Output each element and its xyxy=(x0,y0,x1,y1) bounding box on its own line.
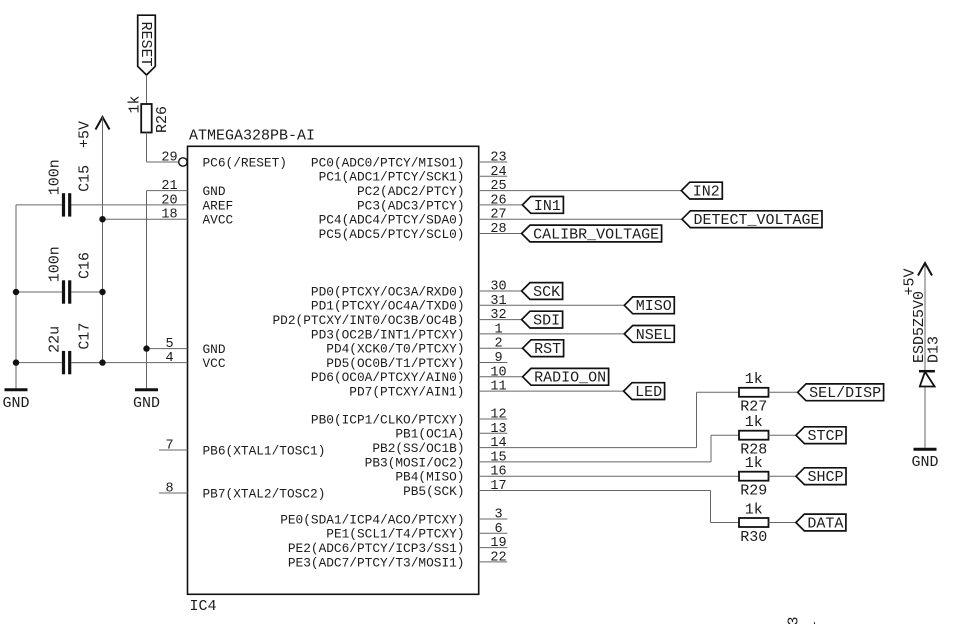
svg-text:12: 12 xyxy=(490,408,506,423)
svg-text:19: 19 xyxy=(490,536,506,551)
svg-text:15: 15 xyxy=(490,450,506,465)
svg-text:26: 26 xyxy=(490,193,506,208)
svg-text:PB0(ICP1/CLKO/PTCXY): PB0(ICP1/CLKO/PTCXY) xyxy=(311,412,465,427)
svg-text:PD7(PTCXY/AIN1): PD7(PTCXY/AIN1) xyxy=(349,385,464,400)
svg-text:1k: 1k xyxy=(127,95,144,113)
svg-text:32: 32 xyxy=(490,308,506,323)
svg-text:AREF: AREF xyxy=(203,198,234,213)
svg-text:VCC: VCC xyxy=(203,356,226,371)
svg-text:1k: 1k xyxy=(745,414,763,431)
svg-text:SEL/DISP: SEL/DISP xyxy=(809,385,881,402)
svg-text:DETECT_VOLTAGE: DETECT_VOLTAGE xyxy=(694,212,820,229)
svg-text:21: 21 xyxy=(161,179,177,194)
svg-text:RADIO_ON: RADIO_ON xyxy=(534,370,606,387)
svg-text:7: 7 xyxy=(165,439,173,454)
svg-text:SDI: SDI xyxy=(533,313,560,330)
svg-text:PD2(PTCXY/INT0/OC3B/OC4B): PD2(PTCXY/INT0/OC3B/OC4B) xyxy=(273,313,465,328)
svg-text:PB6(XTAL1/TOSC1): PB6(XTAL1/TOSC1) xyxy=(203,443,326,458)
svg-text:PC0(ADC0/PTCY/MISO1): PC0(ADC0/PTCY/MISO1) xyxy=(311,155,465,170)
svg-text:1k: 1k xyxy=(745,501,763,518)
svg-text:GND: GND xyxy=(911,454,938,471)
svg-text:+5V: +5V xyxy=(76,121,93,148)
svg-text:PD1(PTCXY/OC4A/TXD0): PD1(PTCXY/OC4A/TXD0) xyxy=(311,299,465,314)
svg-text:100n: 100n xyxy=(47,246,64,282)
svg-text:PE1(SCL1/T4/PTCXY): PE1(SCL1/T4/PTCXY) xyxy=(326,527,464,542)
svg-text:PD3(OC2B/INT1/PTCXY): PD3(OC2B/INT1/PTCXY) xyxy=(311,327,465,342)
svg-text:28: 28 xyxy=(490,222,506,237)
svg-text:22u: 22u xyxy=(47,326,64,353)
svg-text:5: 5 xyxy=(165,337,173,352)
svg-text:STCP: STCP xyxy=(808,428,844,445)
svg-text:16: 16 xyxy=(490,465,506,480)
svg-text:17: 17 xyxy=(490,479,506,494)
svg-text:PC4(ADC4/PTCY/SDA0): PC4(ADC4/PTCY/SDA0) xyxy=(319,213,465,228)
svg-text:PD5(OC0B/T1/PTCXY): PD5(OC0B/T1/PTCXY) xyxy=(326,356,464,371)
svg-text:PC5(ADC5/PTCY/SCL0): PC5(ADC5/PTCY/SCL0) xyxy=(319,227,465,242)
svg-text:PB1(OC1A): PB1(OC1A) xyxy=(395,427,464,442)
svg-text:PB5(SCK): PB5(SCK) xyxy=(403,484,464,499)
svg-text:LED: LED xyxy=(635,384,662,401)
svg-text:R26: R26 xyxy=(154,106,171,133)
svg-text:ATMEGA328PB-AI: ATMEGA328PB-AI xyxy=(189,128,315,145)
svg-text:SCK: SCK xyxy=(533,284,560,301)
svg-text:IN2: IN2 xyxy=(693,184,720,201)
svg-text:20: 20 xyxy=(161,193,177,208)
svg-text:PE3(ADC7/PTCY/T3/MOSI1): PE3(ADC7/PTCY/T3/MOSI1) xyxy=(288,555,465,570)
svg-text:PE0(SDA1/ICP4/ACO/PTCXY): PE0(SDA1/ICP4/ACO/PTCXY) xyxy=(280,512,464,527)
svg-text:1k: 1k xyxy=(745,455,763,472)
svg-text:14: 14 xyxy=(490,436,506,451)
svg-text:PB3(MOSI/OC2): PB3(MOSI/OC2) xyxy=(365,455,465,470)
svg-text:IC4: IC4 xyxy=(190,598,217,615)
svg-text:PD0(PTCXY/OC3A/RXD0): PD0(PTCXY/OC3A/RXD0) xyxy=(311,284,465,299)
svg-text:C15: C15 xyxy=(77,165,94,192)
svg-text:6: 6 xyxy=(494,522,502,537)
svg-text:9: 9 xyxy=(494,351,502,366)
svg-text:8: 8 xyxy=(165,482,173,497)
svg-text:GND: GND xyxy=(133,395,160,412)
svg-text:100n: 100n xyxy=(47,159,64,195)
svg-text:3: 3 xyxy=(786,616,803,624)
svg-text:PC6(/RESET): PC6(/RESET) xyxy=(203,155,287,170)
svg-text:C17: C17 xyxy=(77,323,94,350)
svg-text:D13: D13 xyxy=(926,336,943,363)
svg-text:24: 24 xyxy=(490,165,506,180)
svg-text:IN1: IN1 xyxy=(534,198,561,215)
svg-text:30: 30 xyxy=(490,280,506,295)
svg-text:29: 29 xyxy=(161,151,177,166)
svg-text:4: 4 xyxy=(165,351,173,366)
svg-text:RESET: RESET xyxy=(137,22,154,67)
svg-text:R29: R29 xyxy=(740,483,767,500)
svg-text:RST: RST xyxy=(534,341,561,358)
svg-text:MISO: MISO xyxy=(636,298,672,315)
svg-text:AVCC: AVCC xyxy=(203,213,234,228)
svg-text:13: 13 xyxy=(490,422,506,437)
svg-text:SHCP: SHCP xyxy=(808,469,844,486)
svg-text:GND: GND xyxy=(203,342,226,357)
svg-text:PE2(ADC6/PTCY/ICP3/SS1): PE2(ADC6/PTCY/ICP3/SS1) xyxy=(288,541,465,556)
svg-text:PB7(XTAL2/TOSC2): PB7(XTAL2/TOSC2) xyxy=(203,486,326,501)
svg-text:10: 10 xyxy=(490,365,506,380)
svg-text:R30: R30 xyxy=(740,529,767,546)
svg-text:25: 25 xyxy=(490,179,506,194)
svg-text:PC2(ADC2/PTCY): PC2(ADC2/PTCY) xyxy=(357,184,465,199)
svg-text:NSEL: NSEL xyxy=(636,327,672,344)
svg-text:PB4(MISO): PB4(MISO) xyxy=(395,470,464,485)
svg-text:GND: GND xyxy=(203,184,226,199)
svg-text:GND: GND xyxy=(2,395,29,412)
svg-text:DATA: DATA xyxy=(807,515,843,532)
svg-text:PC1(ADC1/PTCY/SCK1): PC1(ADC1/PTCY/SCK1) xyxy=(319,170,465,185)
svg-text:PD6(OC0A/PTCXY/AIN0): PD6(OC0A/PTCXY/AIN0) xyxy=(311,370,465,385)
svg-text:11: 11 xyxy=(490,380,506,395)
svg-text:PD4(XCK0/T0/PTCXY): PD4(XCK0/T0/PTCXY) xyxy=(326,342,464,357)
svg-text:CALIBR_VOLTAGE: CALIBR_VOLTAGE xyxy=(533,226,659,243)
svg-text:27: 27 xyxy=(490,208,506,223)
svg-text:3: 3 xyxy=(494,508,502,523)
svg-text:PC3(ADC3/PTCY): PC3(ADC3/PTCY) xyxy=(357,198,465,213)
svg-text:18: 18 xyxy=(161,208,177,223)
svg-text:31: 31 xyxy=(490,294,506,309)
svg-text:23: 23 xyxy=(490,151,506,166)
svg-text:22: 22 xyxy=(490,550,506,565)
svg-text:1k: 1k xyxy=(745,371,763,388)
svg-text:2: 2 xyxy=(494,337,502,352)
svg-text:1: 1 xyxy=(494,322,502,337)
svg-text:C16: C16 xyxy=(77,252,94,279)
svg-text:PB2(SS/OC1B): PB2(SS/OC1B) xyxy=(372,441,464,456)
